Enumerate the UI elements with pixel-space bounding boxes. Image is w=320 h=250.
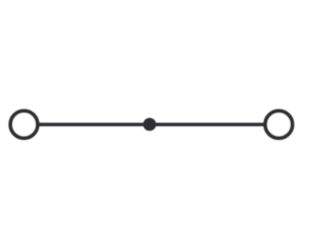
terminal circle right xyxy=(265,111,292,138)
junction node xyxy=(143,118,156,131)
terminal circle left xyxy=(10,111,37,138)
wire xyxy=(38,123,265,127)
